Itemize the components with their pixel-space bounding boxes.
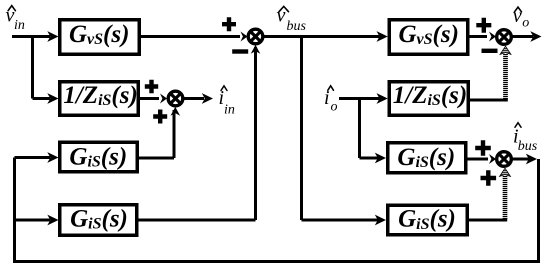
wire feedback ibus right-bottom-left loop xyxy=(15,158,539,262)
dotted arrowhead into J4 xyxy=(500,168,511,176)
plus sign J4 left + xyxy=(475,140,491,156)
arrowhead into J3 xyxy=(489,32,496,42)
wire feedback branch to GiS left row4 xyxy=(15,219,51,222)
label i_in xyxy=(219,86,235,117)
wire J3 out to vo xyxy=(512,35,534,38)
label i_o xyxy=(324,86,338,115)
block 1/ZiS(s) right row2 xyxy=(389,82,468,116)
svg-text:i: i xyxy=(324,87,330,109)
svg-text:o: o xyxy=(522,16,529,31)
arrowhead into GvS left xyxy=(47,31,58,42)
wire J2 out to iin xyxy=(183,97,205,100)
wire 1/ZiS left out to J2 xyxy=(139,97,159,100)
wire GvS right out to J3 xyxy=(469,35,487,38)
svg-text:in: in xyxy=(14,18,25,33)
label v_bus xyxy=(277,5,307,34)
arrowhead into 1/ZiS right xyxy=(377,93,388,104)
arrowhead into J4 xyxy=(489,154,496,164)
arrowhead into GiS left row3 xyxy=(47,152,58,163)
block GvS(s) right row1 xyxy=(389,20,468,55)
plus sign J1 left + xyxy=(222,17,236,31)
block GiS(s) right row3 xyxy=(388,143,466,173)
wire GiS right row4 out xyxy=(468,219,507,222)
minus sign J3 bottom - xyxy=(482,49,498,53)
summing junction J2 (iin = +1/ZiS vin + GiS ibus) xyxy=(168,91,183,106)
block GvS(s) left row1 xyxy=(60,20,140,55)
label v_in xyxy=(6,5,25,34)
wire 1/ZiS right out xyxy=(469,99,508,102)
svg-text:o: o xyxy=(331,99,338,114)
summing junction J3 (vo = +GvS vbus - 1/ZiS io) xyxy=(497,30,512,45)
dotted wire 1/ZiS right up to J3 xyxy=(503,54,508,101)
arrowhead iin terminal xyxy=(202,93,213,104)
wire GiS left row4 out up to J1 xyxy=(138,47,256,220)
arrowhead into GvS right xyxy=(377,31,388,42)
summing junction J4 (ibus = +GiS vbus + GiS io) xyxy=(497,152,512,167)
label v_o xyxy=(513,5,530,31)
dotted wire GiS right row4 up to J4 xyxy=(503,176,508,221)
wire io branch down to GiS right row3 xyxy=(360,99,379,159)
wire J4 out to ibus xyxy=(512,158,530,161)
arrowhead into GiS left row4 xyxy=(47,215,58,226)
wire io input to 1/ZiS right xyxy=(339,97,380,100)
arrowhead into GiS right row4 xyxy=(375,215,386,226)
block GiS(s) right row4 xyxy=(388,205,468,235)
plus sign J4 bottom + xyxy=(481,170,497,186)
minus sign J1 bottom - xyxy=(232,49,248,53)
arrowhead ibus corner xyxy=(526,154,537,165)
wire GiS right row3 out to J4 xyxy=(467,158,488,161)
svg-text:in: in xyxy=(224,102,235,117)
plus sign J2 left + xyxy=(145,80,158,93)
wire GvS left out to J1 xyxy=(140,35,240,38)
block GiS(s) left row4 xyxy=(60,205,137,236)
arrowhead into J2 from below xyxy=(171,107,181,116)
wire vin input xyxy=(12,35,50,38)
arrowhead into J2 xyxy=(160,94,167,104)
arrowhead into 1/ZiS left xyxy=(47,93,58,104)
plus sign J2 bottom + xyxy=(153,110,167,124)
arrowhead into J1 from below xyxy=(251,45,261,54)
wire vin branch down to 1/ZiS left xyxy=(33,35,51,99)
svg-text:bus: bus xyxy=(287,19,307,34)
block GiS(s) left row3 xyxy=(60,142,138,172)
arrowhead into GiS right row3 xyxy=(375,153,386,164)
block 1/ZiS(s) left row2 xyxy=(60,82,139,116)
summing junction J1 (vbus = +GvS vin - GiS ibus) xyxy=(248,29,263,44)
arrowhead vo terminal xyxy=(530,31,541,42)
dotted arrowhead into J3 xyxy=(500,46,511,54)
svg-text:bus: bus xyxy=(518,139,538,154)
wire vbus branch down to GiS right row4 xyxy=(302,35,379,220)
arrowhead into J1 xyxy=(241,32,248,42)
plus sign J3 left + xyxy=(476,18,491,33)
label i_bus xyxy=(513,123,538,154)
wire GiS left row3 out up to J2 xyxy=(138,110,174,158)
wire J1 out vbus to GvS right xyxy=(264,35,381,38)
